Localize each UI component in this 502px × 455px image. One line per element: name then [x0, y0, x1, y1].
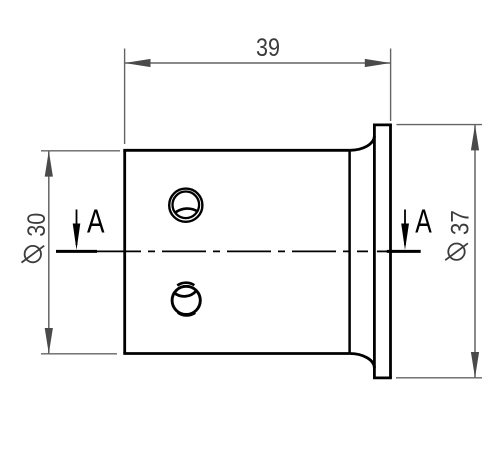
upper hole inner circle — [173, 192, 200, 219]
upper hole outer circle — [169, 189, 202, 222]
section arrow A left head — [73, 224, 81, 251]
section plane thick dash left — [56, 250, 97, 253]
extension line left of dim 39 — [124, 49, 126, 145]
dia37 diameter symbol slash — [445, 243, 468, 260]
dia30 diameter symbol circle — [25, 246, 41, 262]
dimension dia30 bottom arrowhead — [45, 328, 53, 354]
centerline short segment at flange — [377, 250, 388, 252]
extension line bottom of dia37 — [396, 377, 482, 379]
dimension dia37 bottom arrowhead — [471, 352, 479, 378]
dimension 39 line — [125, 62, 391, 64]
flange left edge — [373, 125, 376, 378]
body outline bottom edge — [123, 352, 349, 355]
dimension 39 right arrowhead — [365, 59, 391, 67]
section plane thick dash right — [387, 250, 421, 253]
lower hole circle — [172, 286, 200, 314]
dia37 diameter symbol circle — [448, 244, 464, 260]
dimension dia37 line — [474, 125, 476, 378]
upper hole bottom arc — [175, 209, 197, 213]
flange bottom edge — [373, 376, 392, 379]
lower hole top outer arc — [177, 283, 194, 286]
top fillet — [350, 136, 375, 151]
dia30 diameter symbol slash — [22, 246, 45, 263]
flange top edge — [373, 124, 392, 127]
section arrow A left stem — [76, 210, 78, 246]
svg-text:A: A — [415, 203, 432, 240]
body outline left edge — [123, 150, 126, 353]
flange right edge — [389, 125, 392, 378]
dimension dia30 line — [48, 151, 50, 354]
dimension dia37 top arrowhead — [471, 125, 479, 151]
section arrow A right head — [401, 224, 409, 251]
neck tangent vertical line — [348, 150, 351, 353]
section arrow A right stem — [404, 210, 406, 246]
svg-text:39: 39 — [256, 34, 280, 62]
dimension dia30 top arrowhead — [45, 151, 53, 177]
svg-text:37: 37 — [447, 210, 475, 235]
lower hole bottom outer arc — [178, 313, 195, 316]
svg-text:A: A — [87, 203, 105, 240]
dimension 39 left arrowhead — [125, 59, 151, 67]
bottom fillet — [350, 354, 375, 369]
body outline top edge — [123, 149, 349, 152]
extension line top of dia37 — [397, 124, 483, 126]
extension line bottom of dia30 — [41, 353, 117, 355]
centerline dash-dot — [97, 250, 368, 252]
extension line top of dia30 — [41, 150, 120, 152]
svg-text:30: 30 — [23, 213, 51, 237]
lower hole inner waterline arc — [174, 291, 196, 297]
extension line right of dim 39 — [390, 49, 392, 122]
